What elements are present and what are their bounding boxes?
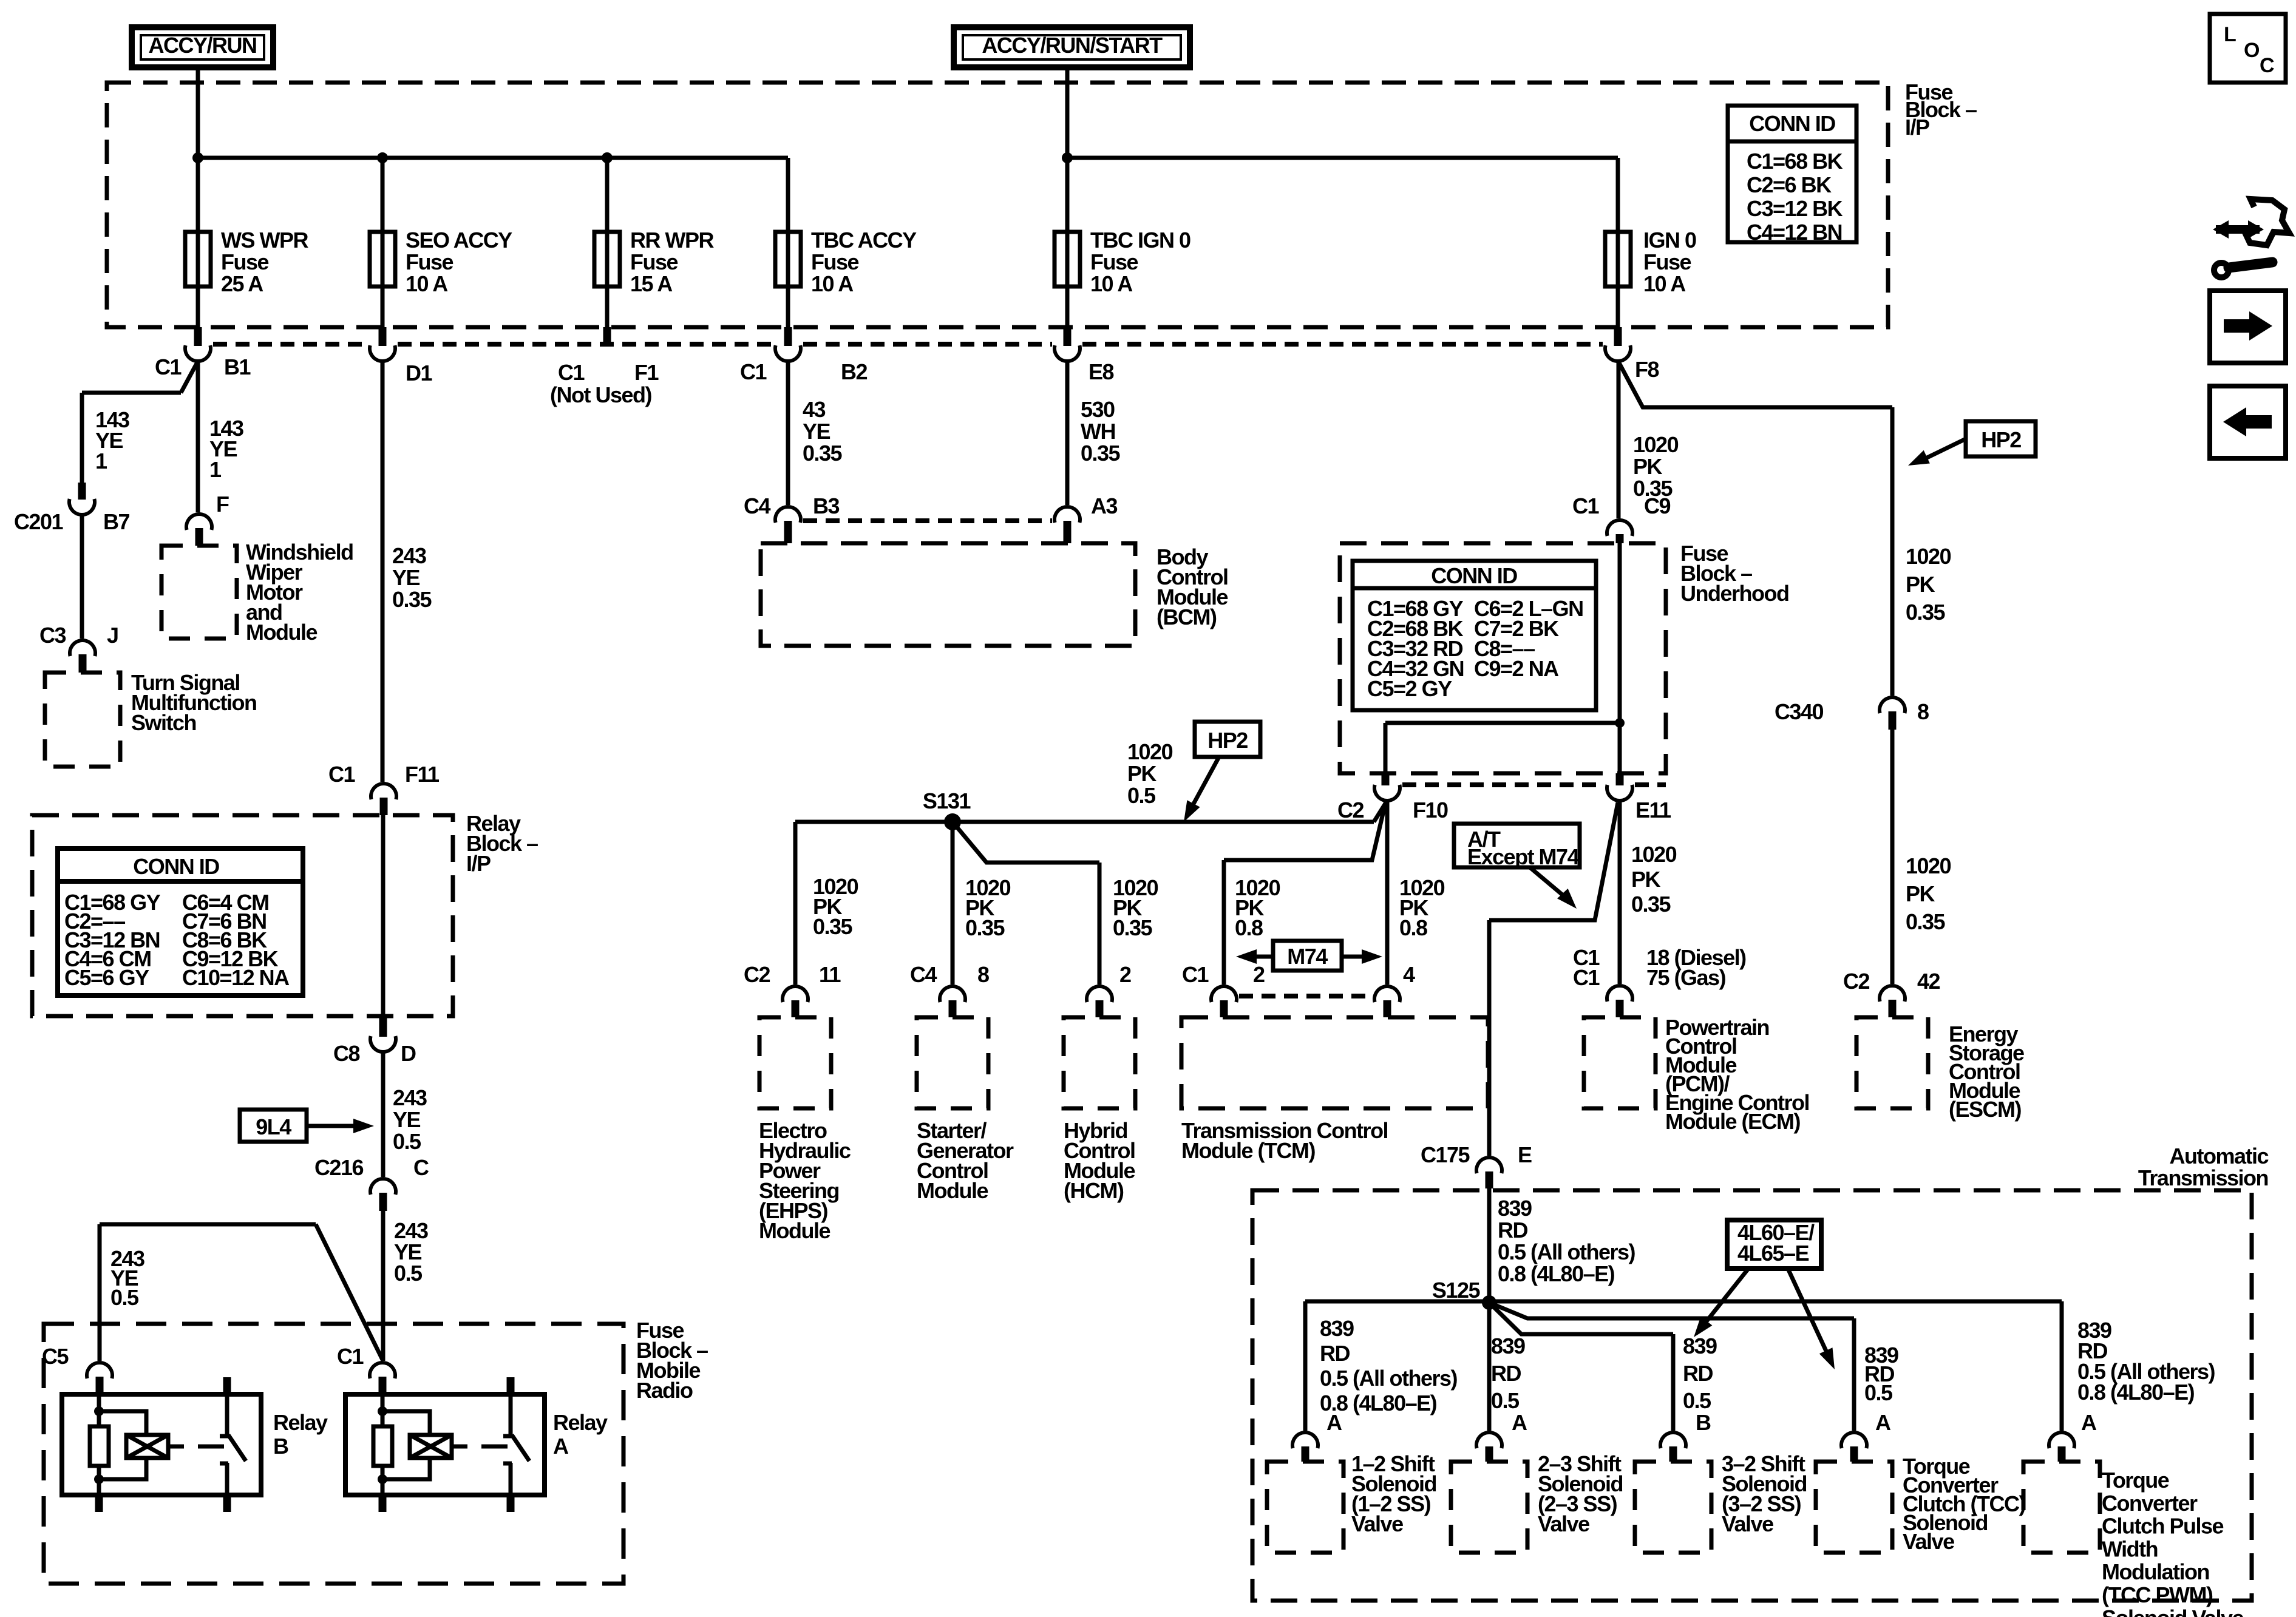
svg-text:RD: RD — [1498, 1218, 1527, 1242]
svg-text:8: 8 — [977, 962, 989, 987]
svg-text:0.35: 0.35 — [1113, 915, 1153, 940]
svg-text:Converter: Converter — [2102, 1491, 2198, 1516]
svg-text:C2=6 BK: C2=6 BK — [1747, 172, 1832, 197]
svg-text:Module: Module — [917, 1178, 988, 1203]
svg-text:Switch: Switch — [131, 710, 196, 735]
svg-text:42: 42 — [1917, 969, 1940, 994]
svg-text:PK: PK — [1633, 454, 1663, 479]
svg-text:0.5: 0.5 — [110, 1285, 139, 1310]
svg-text:S131: S131 — [923, 788, 971, 813]
svg-text:PK: PK — [1906, 881, 1935, 906]
svg-text:0.5: 0.5 — [1491, 1388, 1520, 1413]
svg-text:15 A: 15 A — [630, 271, 673, 296]
svg-text:C9=2 NA: C9=2 NA — [1474, 656, 1559, 681]
svg-text:0.35: 0.35 — [1081, 441, 1121, 466]
svg-text:0.35: 0.35 — [1631, 892, 1671, 917]
svg-text:10 A: 10 A — [811, 271, 854, 296]
svg-text:839: 839 — [1498, 1196, 1532, 1221]
svg-text:10 A: 10 A — [406, 271, 448, 296]
svg-text:11: 11 — [819, 962, 841, 987]
svg-text:F10: F10 — [1413, 798, 1448, 822]
svg-text:9L4: 9L4 — [256, 1114, 291, 1139]
svg-text:D: D — [401, 1041, 416, 1066]
svg-text:RD: RD — [1491, 1361, 1521, 1386]
svg-text:CONN ID: CONN ID — [133, 854, 219, 879]
svg-text:839: 839 — [1683, 1334, 1717, 1358]
svg-text:A3: A3 — [1091, 493, 1117, 518]
svg-text:C1: C1 — [155, 354, 182, 379]
svg-text:C1: C1 — [337, 1344, 364, 1369]
svg-text:1020: 1020 — [1906, 853, 1951, 878]
svg-text:J: J — [107, 623, 118, 648]
svg-text:1020: 1020 — [1906, 544, 1951, 569]
svg-text:(ESCM): (ESCM) — [1949, 1097, 2021, 1122]
svg-text:C216: C216 — [314, 1155, 364, 1180]
svg-text:1: 1 — [95, 449, 107, 473]
svg-text:Relay: Relay — [553, 1410, 608, 1435]
svg-text:WH: WH — [1081, 419, 1115, 444]
svg-text:243: 243 — [392, 543, 426, 568]
svg-text:530: 530 — [1081, 397, 1115, 422]
svg-text:0.5 (All others): 0.5 (All others) — [1498, 1239, 1635, 1264]
svg-text:0.5: 0.5 — [1127, 783, 1156, 808]
svg-text:0.8 (4L80–E): 0.8 (4L80–E) — [2077, 1380, 2195, 1405]
svg-text:C2: C2 — [1843, 969, 1869, 994]
svg-text:Relay: Relay — [273, 1410, 328, 1435]
svg-text:4L65–E: 4L65–E — [1737, 1241, 1809, 1266]
svg-text:839: 839 — [1320, 1316, 1354, 1341]
svg-text:B: B — [273, 1434, 288, 1459]
svg-text:75 (Gas): 75 (Gas) — [1646, 965, 1726, 990]
svg-text:S125: S125 — [1432, 1278, 1481, 1303]
svg-text:(HCM): (HCM) — [1064, 1178, 1124, 1203]
svg-text:Module (ECM): Module (ECM) — [1665, 1109, 1800, 1134]
svg-text:10 A: 10 A — [1090, 271, 1133, 296]
svg-text:C1: C1 — [1572, 493, 1599, 518]
svg-text:E11: E11 — [1635, 798, 1671, 822]
svg-text:C2: C2 — [744, 962, 770, 987]
svg-text:(Not Used): (Not Used) — [550, 382, 651, 407]
svg-text:Fuse: Fuse — [811, 249, 859, 274]
svg-text:HP2: HP2 — [1981, 427, 2021, 452]
svg-text:Module: Module — [246, 620, 317, 645]
svg-text:Valve: Valve — [1351, 1511, 1403, 1536]
svg-text:PK: PK — [1906, 572, 1935, 597]
svg-text:0.5: 0.5 — [394, 1261, 423, 1286]
svg-text:0.35: 0.35 — [1906, 909, 1946, 934]
svg-text:Fuse: Fuse — [630, 249, 678, 274]
svg-text:C2: C2 — [1337, 798, 1364, 822]
svg-text:E8: E8 — [1089, 359, 1114, 384]
svg-text:A: A — [1875, 1410, 1891, 1435]
svg-text:8: 8 — [1917, 699, 1929, 724]
svg-text:C9: C9 — [1644, 493, 1670, 518]
svg-text:0.35: 0.35 — [965, 915, 1005, 940]
svg-text:839: 839 — [1491, 1334, 1525, 1358]
svg-text:C1: C1 — [1573, 965, 1600, 990]
svg-text:Radio: Radio — [636, 1378, 693, 1403]
svg-text:0.5: 0.5 — [393, 1129, 421, 1154]
svg-text:C: C — [413, 1155, 429, 1180]
svg-text:C1: C1 — [328, 762, 355, 787]
svg-text:RD: RD — [1683, 1361, 1713, 1386]
svg-text:Underhood: Underhood — [1680, 581, 1788, 606]
svg-text:C1=68 BK: C1=68 BK — [1747, 149, 1843, 174]
svg-text:B2: B2 — [841, 359, 867, 384]
svg-text:I/P: I/P — [1905, 115, 1929, 140]
svg-text:Clutch Pulse: Clutch Pulse — [2102, 1514, 2224, 1539]
svg-text:4: 4 — [1403, 962, 1415, 987]
svg-text:C175: C175 — [1421, 1142, 1470, 1167]
svg-text:YE: YE — [393, 1107, 421, 1132]
svg-text:A: A — [553, 1434, 569, 1459]
svg-text:A: A — [1512, 1410, 1527, 1435]
svg-text:F: F — [216, 492, 229, 517]
svg-text:B7: B7 — [103, 509, 129, 534]
svg-text:A: A — [1326, 1410, 1342, 1435]
svg-text:C3: C3 — [39, 623, 66, 648]
svg-text:C5: C5 — [42, 1344, 69, 1369]
svg-text:2: 2 — [1119, 962, 1131, 987]
svg-text:PK: PK — [1631, 867, 1661, 892]
svg-text:C1: C1 — [740, 359, 767, 384]
svg-text:25 A: 25 A — [221, 271, 263, 296]
svg-text:Valve: Valve — [1722, 1511, 1773, 1536]
svg-text:PK: PK — [1127, 761, 1157, 786]
svg-text:Fuse: Fuse — [1643, 249, 1691, 274]
svg-text:B: B — [1696, 1410, 1711, 1435]
svg-text:C10=12 NA: C10=12 NA — [182, 965, 290, 990]
svg-text:2: 2 — [1253, 962, 1265, 987]
svg-text:Valve: Valve — [1538, 1511, 1589, 1536]
svg-text:C1: C1 — [558, 360, 585, 385]
svg-text:(TCC PWM): (TCC PWM) — [2102, 1582, 2213, 1607]
svg-text:HP2: HP2 — [1207, 728, 1248, 753]
svg-text:C5=6 GY: C5=6 GY — [64, 965, 149, 990]
svg-text:Modulation: Modulation — [2102, 1559, 2209, 1584]
svg-text:ACCY/RUN/START: ACCY/RUN/START — [982, 33, 1163, 58]
svg-text:0.35: 0.35 — [1906, 600, 1946, 625]
svg-text:Module: Module — [759, 1218, 830, 1243]
svg-text:SEO ACCY: SEO ACCY — [406, 228, 512, 253]
svg-text:L: L — [2224, 23, 2236, 46]
svg-text:C4: C4 — [744, 493, 770, 518]
svg-text:Module (TCM): Module (TCM) — [1181, 1138, 1315, 1163]
svg-text:D1: D1 — [406, 361, 432, 385]
svg-text:YE: YE — [392, 565, 420, 590]
svg-text:Valve: Valve — [1903, 1529, 1954, 1554]
svg-text:1: 1 — [209, 457, 222, 482]
svg-text:Fuse: Fuse — [221, 249, 269, 274]
svg-text:I/P: I/P — [466, 851, 491, 876]
svg-text:TBC IGN 0: TBC IGN 0 — [1090, 228, 1190, 253]
svg-text:10 A: 10 A — [1643, 271, 1686, 296]
svg-text:C8: C8 — [333, 1041, 359, 1066]
svg-text:1020: 1020 — [1631, 842, 1677, 867]
svg-text:1020: 1020 — [1127, 739, 1173, 764]
svg-text:ACCY/RUN: ACCY/RUN — [148, 33, 256, 58]
svg-text:Except M74: Except M74 — [1467, 844, 1580, 869]
svg-text:Torque: Torque — [2102, 1468, 2169, 1493]
svg-text:F11: F11 — [405, 762, 440, 787]
svg-text:C5=2 GY: C5=2 GY — [1367, 676, 1452, 701]
svg-text:WS WPR: WS WPR — [221, 228, 308, 253]
svg-text:TBC ACCY: TBC ACCY — [811, 228, 917, 253]
svg-text:1020: 1020 — [1633, 432, 1679, 457]
svg-text:A: A — [2081, 1410, 2097, 1435]
svg-text:C1: C1 — [1182, 962, 1209, 987]
svg-text:CONN ID: CONN ID — [1749, 111, 1835, 136]
svg-text:YE: YE — [803, 419, 830, 444]
svg-text:B1: B1 — [224, 354, 251, 379]
svg-text:M74: M74 — [1287, 944, 1328, 969]
svg-text:Fuse: Fuse — [406, 249, 453, 274]
svg-text:C201: C201 — [14, 509, 64, 534]
svg-text:0.8: 0.8 — [1399, 915, 1427, 940]
svg-text:RD: RD — [1320, 1341, 1350, 1366]
svg-text:0.35: 0.35 — [803, 441, 843, 466]
svg-text:243: 243 — [393, 1085, 427, 1110]
svg-text:B3: B3 — [813, 493, 839, 518]
svg-text:0.5: 0.5 — [1864, 1380, 1893, 1405]
svg-text:0.5 (All others): 0.5 (All others) — [1320, 1366, 1458, 1391]
svg-text:Automatic: Automatic — [2169, 1144, 2268, 1168]
svg-text:O: O — [2244, 39, 2260, 62]
svg-text:Fuse: Fuse — [1090, 249, 1138, 274]
svg-text:E: E — [1518, 1142, 1532, 1167]
svg-text:0.35: 0.35 — [392, 587, 432, 612]
svg-text:IGN 0: IGN 0 — [1643, 228, 1696, 253]
svg-text:C4: C4 — [910, 962, 937, 987]
svg-text:(BCM): (BCM) — [1156, 605, 1217, 629]
svg-text:0.35: 0.35 — [813, 914, 853, 939]
svg-text:0.8 (4L80–E): 0.8 (4L80–E) — [1498, 1261, 1615, 1286]
svg-text:F1: F1 — [634, 360, 659, 385]
svg-text:C3=12 BK: C3=12 BK — [1747, 196, 1843, 221]
svg-text:43: 43 — [803, 397, 826, 422]
svg-text:RR WPR: RR WPR — [630, 228, 714, 253]
svg-text:Transmission: Transmission — [2138, 1165, 2268, 1190]
svg-text:0.5: 0.5 — [1683, 1388, 1711, 1413]
svg-text:F8: F8 — [1635, 357, 1659, 382]
svg-text:C340: C340 — [1775, 699, 1824, 724]
svg-text:Solenoid Valve: Solenoid Valve — [2102, 1605, 2244, 1617]
svg-text:CONN ID: CONN ID — [1431, 563, 1517, 588]
svg-text:0.8: 0.8 — [1235, 915, 1263, 940]
svg-text:Width: Width — [2102, 1536, 2158, 1561]
svg-text:C4=12 BN: C4=12 BN — [1747, 220, 1842, 245]
svg-text:C: C — [2260, 54, 2274, 77]
